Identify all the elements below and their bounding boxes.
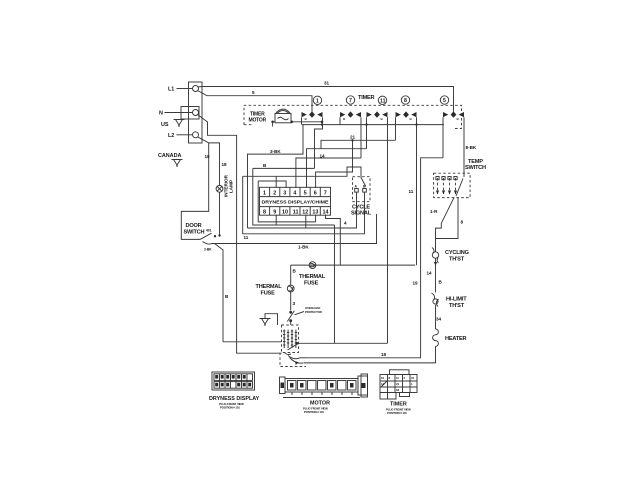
svg-text:u: u [343, 117, 345, 121]
svg-text:u: u [457, 117, 459, 121]
svg-text:DOOR: DOOR [186, 223, 202, 229]
timer contact number 7 [346, 96, 354, 104]
wire heater bottom [304, 346, 436, 363]
junction [351, 139, 353, 141]
wire loop4 [258, 181, 315, 222]
svg-text:31: 31 [324, 81, 330, 86]
thermal fuse F1 [287, 265, 294, 310]
svg-text:DRYNESS DISPLAY/CHIME: DRYNESS DISPLAY/CHIME [262, 200, 329, 205]
svg-text:9: 9 [273, 209, 276, 215]
svg-text:SIGNAL: SIGNAL [351, 211, 372, 217]
svg-text:1: 1 [316, 99, 319, 105]
wire loop2 top [248, 125, 304, 228]
svg-text:CANADA: CANADA [158, 153, 181, 159]
svg-text:18: 18 [381, 352, 387, 357]
wire L1 top rail to timer [198, 87, 454, 112]
wire loop3 [253, 168, 335, 225]
svg-text:TH'ST: TH'ST [449, 257, 465, 263]
cycling thermostat [432, 247, 439, 293]
svg-text:FUSE: FUSE [304, 281, 319, 287]
connector block pin numbers bottom [263, 209, 329, 215]
timer contact number 1 [313, 96, 321, 104]
terminal block N box [181, 107, 199, 120]
svg-text:3: 3 [283, 191, 286, 197]
terminal L2 [193, 132, 199, 138]
wire left feed into motor [223, 341, 282, 343]
junction dots on contact rail [321, 123, 323, 125]
timer motor M1 [271, 109, 293, 126]
wire motor out lower [300, 357, 307, 359]
wire cell14 drop [326, 215, 341, 266]
svg-text:10: 10 [282, 209, 288, 215]
motor connector [280, 374, 368, 398]
svg-text:11: 11 [380, 99, 386, 105]
svg-text:4: 4 [344, 221, 347, 226]
wire L1 lead [177, 88, 193, 90]
connector block grid [260, 187, 331, 215]
svg-text:1-BK: 1-BK [298, 245, 309, 250]
svg-text:PROTECTOR: PROTECTOR [305, 310, 323, 314]
connector block pin numbers top [263, 191, 327, 197]
svg-text:18: 18 [205, 154, 211, 159]
svg-text:14: 14 [427, 271, 433, 276]
timer cam contact 4 [396, 111, 417, 265]
timer contact number 5 [440, 96, 448, 104]
svg-text:u: u [381, 117, 383, 121]
wire motor to contact rail [292, 121, 322, 123]
svg-text:POSITION # 101: POSITION # 101 [387, 411, 407, 415]
dryness display connector [212, 372, 255, 390]
timer cam contact 5 [443, 111, 464, 173]
cycle signal dashed box [353, 177, 371, 202]
svg-text:LAMP: LAMP [229, 180, 234, 193]
svg-text:6: 6 [314, 191, 317, 197]
svg-text:US: US [161, 122, 169, 128]
svg-text:SWITCH: SWITCH [465, 165, 486, 171]
svg-text:14: 14 [320, 154, 326, 159]
timer dashed box [244, 105, 462, 128]
wire L2 lead [177, 134, 193, 136]
wire c5 left drop to motor line [307, 158, 443, 358]
wire loop2 bottom to cycle pin A [248, 196, 357, 229]
wire cell4 feed [296, 158, 361, 188]
svg-text:7: 7 [324, 191, 327, 197]
temp switch pin2 out [436, 198, 459, 239]
centrifugal switch [280, 342, 306, 367]
svg-text:POSITION # 101: POSITION # 101 [220, 406, 240, 410]
motor windings [283, 330, 297, 349]
temp switch S2 dashed box [434, 173, 471, 197]
svg-text:THERMAL: THERMAL [299, 274, 326, 280]
svg-text:5: 5 [252, 90, 255, 95]
svg-text:8: 8 [461, 220, 464, 225]
svg-text:11: 11 [293, 209, 299, 215]
wire staircase c1 right [253, 125, 323, 169]
wire cell13 drop [315, 215, 317, 222]
svg-text:CYCLING: CYCLING [445, 250, 469, 256]
wire loop1 outer [243, 176, 365, 234]
svg-text:13: 13 [312, 209, 318, 215]
svg-text:11: 11 [244, 235, 249, 240]
wire cell5 feed [307, 149, 367, 188]
svg-text:THERMAL: THERMAL [256, 284, 283, 290]
svg-text:HEATER: HEATER [445, 336, 467, 342]
svg-text:2: 2 [273, 191, 276, 197]
svg-text:TH'ST: TH'ST [449, 303, 465, 309]
svg-text:7: 7 [349, 98, 352, 104]
ground motor [260, 314, 278, 325]
wire cell12 drop [305, 215, 307, 229]
svg-text:8: 8 [263, 209, 266, 215]
terminal block TB1 [189, 82, 203, 143]
connector block P1 outer [260, 187, 331, 215]
motor M2 dashed box [282, 325, 299, 353]
svg-text:8: 8 [404, 98, 407, 104]
svg-text:L2: L2 [168, 133, 174, 139]
heater coil [433, 329, 439, 346]
timer contact number 8 [401, 96, 409, 104]
ground US [174, 120, 185, 127]
svg-text:3: 3 [293, 301, 296, 306]
door switch S1 [184, 223, 230, 342]
svg-text:4: 4 [293, 191, 296, 197]
hi-limit thermostat [432, 293, 439, 329]
svg-text:5: 5 [304, 191, 307, 197]
svg-text:19: 19 [413, 281, 419, 286]
svg-text:12: 12 [302, 209, 308, 215]
wire cell9 drop [275, 215, 277, 226]
svg-text:HI-LIMIT: HI-LIMIT [446, 297, 467, 303]
svg-text:14: 14 [323, 209, 329, 215]
svg-text:MOTOR: MOTOR [249, 118, 267, 124]
wire motor out upper [299, 342, 388, 344]
wire L2 blade to lamp and door [181, 137, 220, 240]
overload pointer [295, 312, 305, 315]
svg-text:5: 5 [443, 98, 446, 104]
temp switch blade out [436, 198, 455, 247]
timer cam contact 3 [367, 111, 388, 343]
overload protector [287, 311, 294, 325]
svg-text:34: 34 [436, 317, 442, 322]
wire N lead [165, 112, 193, 114]
timer connector [380, 370, 417, 399]
svg-text:21: 21 [350, 135, 356, 140]
svg-text:2-BK: 2-BK [204, 248, 212, 252]
junction [321, 121, 324, 124]
wire cell6 feed [316, 140, 353, 188]
svg-text:401: 401 [206, 229, 212, 233]
terminal N [193, 110, 199, 116]
timer contact number 11 [378, 96, 386, 104]
terminal L1 [193, 86, 199, 92]
timer cam contact 1 [302, 111, 323, 129]
svg-text:11: 11 [409, 189, 414, 194]
svg-text:POSITION # 101: POSITION # 101 [304, 410, 324, 414]
wire contact rail lower [302, 124, 444, 126]
wire L1 blade branch [198, 91, 313, 112]
svg-text:L1: L1 [168, 87, 174, 93]
svg-text:u: u [305, 117, 307, 121]
svg-text:TIMER: TIMER [358, 95, 375, 101]
wire cell2 feed [243, 167, 361, 188]
wire 21 run [321, 140, 396, 148]
svg-text:1-R: 1-R [430, 209, 438, 214]
ground CANADA [172, 160, 183, 167]
svg-text:18: 18 [222, 162, 228, 167]
wire cell3 feed [258, 181, 286, 188]
svg-text:SWITCH: SWITCH [184, 230, 205, 236]
cycle signal switch [361, 172, 366, 187]
svg-text:FUSE: FUSE [261, 291, 276, 297]
timer cam contact 2 [340, 111, 361, 158]
svg-text:8-BK: 8-BK [466, 145, 477, 150]
svg-text:1: 1 [263, 191, 266, 197]
wire door run long [212, 214, 377, 244]
interior lamp DS1 [216, 143, 223, 236]
wire N blade down [198, 115, 282, 354]
temp switch contacts [436, 173, 464, 196]
svg-text:3-BK: 3-BK [270, 149, 281, 154]
svg-text:N: N [159, 111, 163, 117]
wire loop3 right drop [334, 225, 336, 343]
thermal fuse F2 [291, 262, 416, 269]
svg-text:u: u [410, 117, 412, 121]
